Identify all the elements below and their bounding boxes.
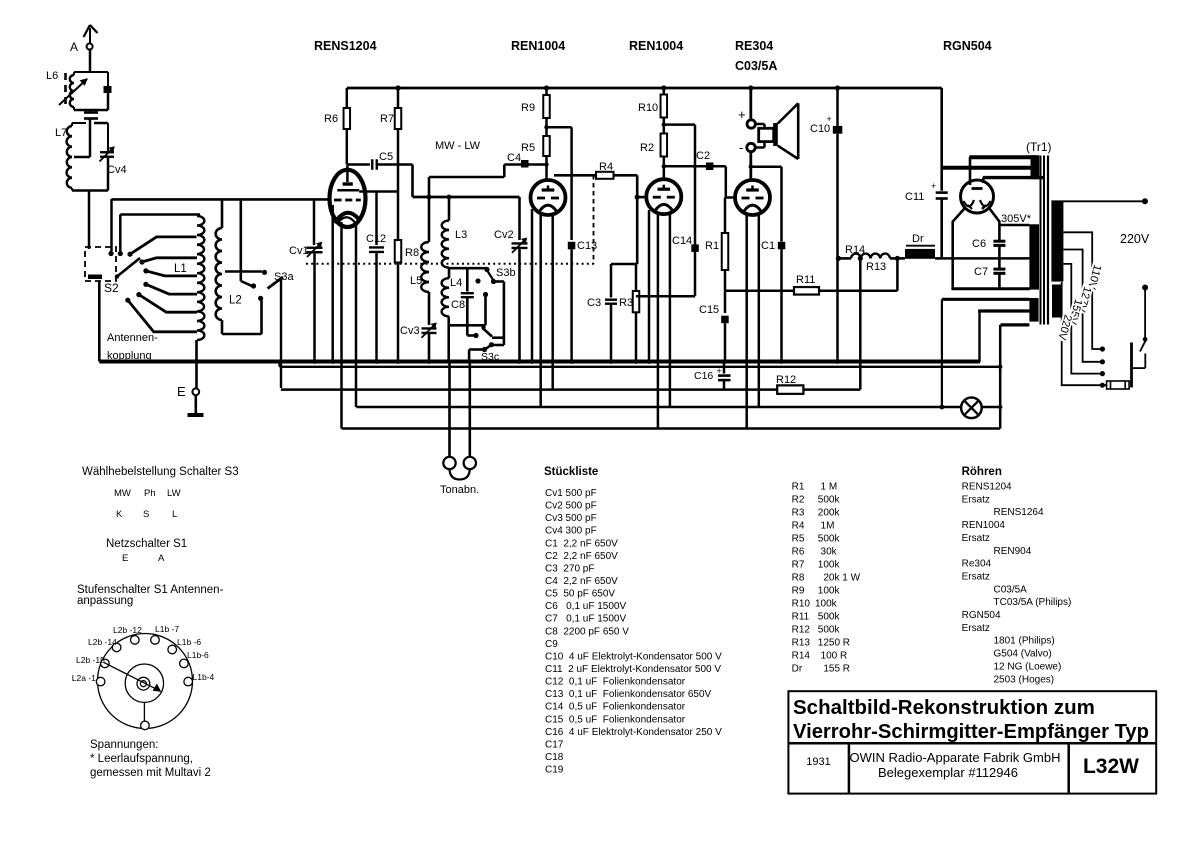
svg-text:R12: R12: [776, 374, 796, 386]
svg-text:TC03/5A (Philips): TC03/5A (Philips): [994, 597, 1072, 608]
svg-text:R9: R9: [792, 586, 805, 597]
svg-text:REN1004: REN1004: [629, 39, 683, 53]
svg-text:Cv4 300 pF: Cv4 300 pF: [545, 526, 597, 537]
svg-text:S2: S2: [104, 281, 119, 295]
svg-text:C16: C16: [694, 370, 713, 382]
svg-text:* Leerlaufspannung,: * Leerlaufspannung,: [90, 753, 193, 765]
svg-text:MW - LW: MW - LW: [435, 140, 481, 152]
svg-text:C03/5A: C03/5A: [994, 584, 1028, 595]
svg-text:R2: R2: [640, 142, 654, 154]
svg-text:L5: L5: [410, 275, 422, 287]
svg-text:Ersatz: Ersatz: [962, 533, 990, 544]
svg-text:C15: C15: [699, 304, 719, 316]
svg-text:100k: 100k: [815, 586, 840, 597]
svg-text:Ersatz: Ersatz: [962, 623, 990, 634]
svg-text:E: E: [122, 553, 128, 564]
svg-text:Tonabn.: Tonabn.: [440, 484, 479, 496]
svg-text:+: +: [738, 107, 746, 122]
svg-text:100 R: 100 R: [815, 651, 847, 662]
svg-text:R13: R13: [792, 638, 811, 649]
svg-text:L2b -12: L2b -12: [113, 625, 142, 635]
svg-text:S: S: [143, 509, 149, 520]
svg-text:R3: R3: [619, 297, 633, 309]
svg-text:L1: L1: [174, 263, 187, 275]
svg-text:Re304: Re304: [962, 559, 992, 570]
svg-text:R5: R5: [521, 142, 535, 154]
svg-text:Stückliste: Stückliste: [544, 466, 598, 478]
svg-text:RENS1204: RENS1204: [314, 39, 377, 53]
svg-text:gemessen mit Multavi 2: gemessen mit Multavi 2: [90, 767, 211, 779]
svg-text:C8: C8: [451, 299, 465, 311]
svg-text:1801 (Philips): 1801 (Philips): [994, 636, 1055, 647]
svg-text:R14: R14: [845, 244, 865, 256]
svg-text:R1: R1: [705, 240, 719, 252]
svg-text:500k: 500k: [815, 534, 840, 545]
svg-text:C16 4 uF Elektrolyt-Kondensat: C16 4 uF Elektrolyt-Kondensator 250 V: [545, 727, 722, 738]
svg-text:Wählhebelstellung Schalter S3: Wählhebelstellung Schalter S3: [82, 466, 239, 478]
svg-text:MW: MW: [114, 488, 131, 499]
svg-text:C3 270 pF: C3 270 pF: [545, 563, 594, 574]
svg-text:Cv4: Cv4: [107, 164, 127, 176]
svg-text:R10: R10: [792, 599, 811, 610]
svg-text:L2b -15: L2b -15: [76, 655, 105, 665]
svg-text:12 NG (Loewe): 12 NG (Loewe): [994, 661, 1062, 672]
svg-text:1250 R: 1250 R: [815, 638, 850, 649]
svg-text:R3: R3: [792, 508, 805, 519]
svg-text:E: E: [177, 384, 186, 399]
svg-text:Netzschalter S1: Netzschalter S1: [106, 538, 187, 550]
svg-text:OWIN Radio-Apparate Fabrik Gmb: OWIN Radio-Apparate Fabrik GmbH: [850, 750, 1061, 765]
svg-text:C03/5A: C03/5A: [735, 59, 777, 73]
svg-text:RENS1204: RENS1204: [962, 482, 1012, 493]
svg-text:2503 (Hoges): 2503 (Hoges): [994, 674, 1055, 685]
svg-text:S3a: S3a: [274, 271, 294, 283]
svg-text:C6: C6: [972, 238, 986, 250]
svg-text:1931: 1931: [806, 756, 830, 768]
svg-text:Belegexemplar #112946: Belegexemplar #112946: [878, 765, 1018, 780]
svg-text:Schaltbild-Rekonstruktion zum: Schaltbild-Rekonstruktion zum: [793, 696, 1095, 719]
svg-text:30k: 30k: [815, 547, 838, 558]
svg-text:RENS1264: RENS1264: [994, 507, 1044, 518]
svg-text:L1b-6: L1b-6: [187, 650, 209, 660]
svg-text:R5: R5: [792, 534, 805, 545]
svg-text:100k: 100k: [815, 560, 840, 571]
svg-text:R12: R12: [792, 625, 811, 636]
svg-text:C11 2 uF Elektrolyt-Kondensat: C11 2 uF Elektrolyt-Kondensator 500 V: [545, 664, 721, 675]
svg-text:A: A: [158, 553, 165, 564]
svg-text:C8 2200 pF 650 V: C8 2200 pF 650 V: [545, 626, 629, 637]
svg-text:C2 2,2 nF 650V: C2 2,2 nF 650V: [545, 551, 618, 562]
svg-text:C14: C14: [672, 235, 692, 247]
svg-text:Ersatz: Ersatz: [962, 571, 990, 582]
svg-text:C5 50 pF 650V: C5 50 pF 650V: [545, 589, 615, 600]
svg-text:LW: LW: [167, 488, 181, 499]
svg-text:REN1004: REN1004: [511, 39, 565, 53]
svg-text:L2: L2: [229, 295, 242, 307]
svg-text:S3b: S3b: [496, 267, 516, 279]
svg-text:Ersatz: Ersatz: [962, 494, 990, 505]
svg-text:C7 0,1 uF 1500V: C7 0,1 uF 1500V: [545, 614, 626, 625]
svg-text:C6 0,1 uF 1500V: C6 0,1 uF 1500V: [545, 601, 626, 612]
svg-text:RGN504: RGN504: [943, 39, 992, 53]
svg-text:L3: L3: [455, 229, 467, 241]
svg-text:C13 0,1 uF Folienkondensator: C13 0,1 uF Folienkondensator 650V: [545, 689, 712, 700]
svg-text:C15 0,5 uF Folienkondensator: C15 0,5 uF Folienkondensator: [545, 714, 686, 725]
svg-text:-: -: [739, 140, 743, 155]
svg-text:L7: L7: [55, 127, 67, 139]
svg-text:C9: C9: [545, 639, 558, 650]
svg-text:Dr: Dr: [792, 664, 803, 675]
svg-text:220V: 220V: [1120, 232, 1150, 246]
svg-text:Antennen-: Antennen-: [107, 332, 158, 344]
svg-text:C12: C12: [366, 233, 386, 245]
svg-text:K: K: [116, 509, 123, 520]
svg-text:R14: R14: [792, 651, 811, 662]
svg-text:Vierrohr-Schirmgitter-Empfänge: Vierrohr-Schirmgitter-Empfänger Typ: [793, 721, 1149, 743]
svg-text:500k: 500k: [815, 612, 840, 623]
svg-text:C14 0,5 uF Folienkondensator: C14 0,5 uF Folienkondensator: [545, 702, 686, 713]
svg-text:REN904: REN904: [994, 546, 1032, 557]
svg-text:500k: 500k: [815, 625, 840, 636]
svg-text:C1 2,2 nF 650V: C1 2,2 nF 650V: [545, 538, 618, 549]
svg-text:Ph: Ph: [144, 488, 156, 499]
svg-text:Cv2 500 pF: Cv2 500 pF: [545, 501, 597, 512]
svg-text:1M: 1M: [815, 521, 834, 532]
svg-text:C11: C11: [905, 191, 924, 203]
svg-text:C7: C7: [974, 266, 988, 278]
svg-text:C4: C4: [507, 152, 521, 164]
svg-text:L4: L4: [450, 277, 462, 289]
svg-text:C19: C19: [545, 765, 564, 776]
svg-text:R7: R7: [380, 113, 394, 125]
svg-text:C17: C17: [545, 739, 564, 750]
svg-text:C12 0,1 uF Folienkondensator: C12 0,1 uF Folienkondensator: [545, 677, 686, 688]
svg-text:Röhren: Röhren: [962, 466, 1002, 478]
svg-text:L32W: L32W: [1083, 755, 1139, 778]
svg-text:1 M: 1 M: [815, 482, 837, 493]
svg-text:C10: C10: [810, 123, 830, 135]
svg-text:Cv1: Cv1: [289, 245, 309, 257]
svg-text:L6: L6: [46, 70, 58, 82]
svg-text:L: L: [172, 509, 177, 520]
svg-text:R8: R8: [792, 573, 805, 584]
svg-text:C13: C13: [577, 240, 597, 252]
svg-text:R4: R4: [792, 521, 805, 532]
svg-text:R11: R11: [796, 274, 815, 286]
svg-text:L1b-4: L1b-4: [193, 672, 215, 682]
svg-text:L2a -1: L2a -1: [72, 673, 96, 683]
svg-text:RE304: RE304: [735, 39, 773, 53]
svg-text:Cv1 500 pF: Cv1 500 pF: [545, 488, 597, 499]
svg-text:R10: R10: [638, 102, 658, 114]
svg-text:R6: R6: [324, 113, 338, 125]
svg-text:C1: C1: [761, 240, 775, 252]
svg-text:R7: R7: [792, 560, 805, 571]
svg-text:R4: R4: [599, 161, 613, 173]
svg-text:Cv3 500 pF: Cv3 500 pF: [545, 513, 597, 524]
svg-text:100k: 100k: [815, 599, 838, 610]
svg-text:L1b -6: L1b -6: [177, 637, 201, 647]
svg-text:anpassung: anpassung: [77, 595, 133, 607]
svg-text:R9: R9: [521, 102, 535, 114]
svg-text:R11: R11: [792, 612, 810, 623]
svg-text:C10 4 uF Elektrolyt-Kondensat: C10 4 uF Elektrolyt-Kondensator 500 V: [545, 651, 722, 662]
svg-text:Spannungen:: Spannungen:: [90, 739, 158, 751]
svg-text:L2b -14: L2b -14: [88, 637, 117, 647]
svg-text:500k: 500k: [815, 495, 840, 506]
svg-text:R2: R2: [792, 495, 805, 506]
svg-text:155 R: 155 R: [815, 664, 850, 675]
svg-text:C18: C18: [545, 752, 564, 763]
svg-text:200k: 200k: [815, 508, 840, 519]
svg-text:R1: R1: [792, 482, 805, 493]
svg-text:+: +: [931, 181, 936, 191]
svg-text:C2: C2: [696, 150, 710, 162]
svg-text:20k 1 W: 20k 1 W: [815, 573, 861, 584]
svg-text:C4 2,2 nF 650V: C4 2,2 nF 650V: [545, 576, 618, 587]
svg-text:R6: R6: [792, 547, 805, 558]
svg-text:Cv2: Cv2: [494, 229, 514, 241]
svg-text:305V*: 305V*: [1001, 213, 1032, 225]
svg-text:A: A: [70, 40, 78, 54]
svg-text:REN1004: REN1004: [962, 520, 1006, 531]
svg-text:S3c: S3c: [481, 351, 499, 363]
svg-text:G504 (Valvo): G504 (Valvo): [994, 649, 1052, 660]
svg-text:RGN504: RGN504: [962, 610, 1001, 621]
svg-text:C5: C5: [379, 151, 393, 163]
svg-text:(Tr1): (Tr1): [1026, 140, 1052, 154]
svg-text:+: +: [827, 114, 832, 124]
svg-text:R8: R8: [405, 247, 419, 259]
svg-text:R13: R13: [866, 261, 886, 273]
svg-text:C3: C3: [587, 297, 601, 309]
svg-text:Dr: Dr: [912, 233, 924, 245]
svg-text:Cv3: Cv3: [400, 325, 420, 337]
svg-text:L1b -7: L1b -7: [155, 624, 179, 634]
